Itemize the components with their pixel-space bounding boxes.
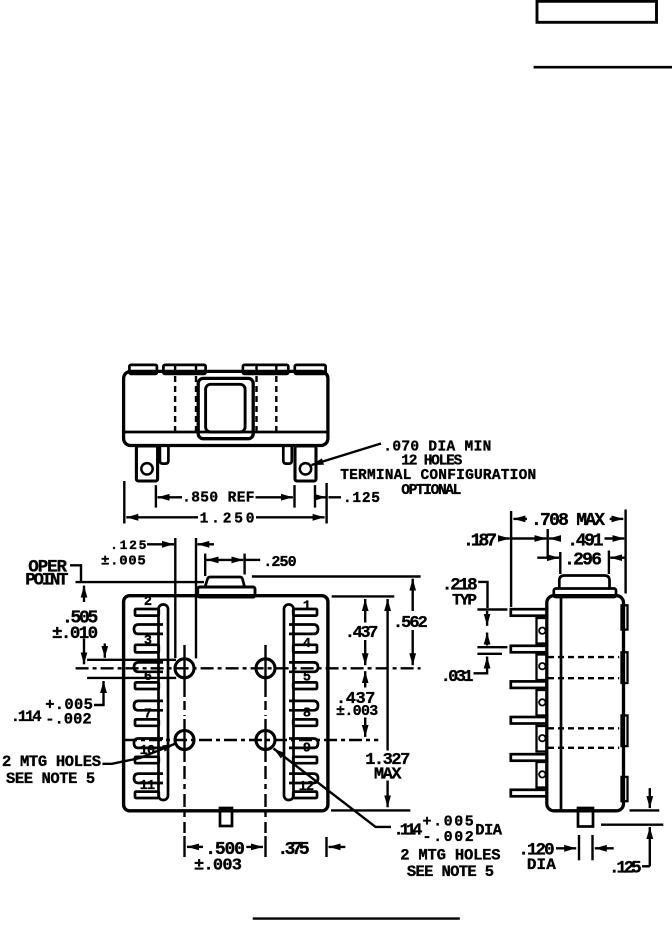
- extension line A: [174, 538, 176, 658]
- relay body (top view): [124, 371, 328, 445]
- svg-text:1: 1: [303, 600, 311, 615]
- side bottom tab: [578, 808, 593, 827]
- side terminal 6: [511, 790, 547, 797]
- svg-text:±.010: ±.010: [52, 624, 98, 644]
- right edge bump 4: [622, 777, 628, 801]
- left small terminal tab: [160, 445, 169, 464]
- extension line B: [195, 538, 197, 658]
- svg-text:.708 MAX: .708 MAX: [531, 511, 605, 531]
- svg-text:DIA: DIA: [475, 822, 502, 840]
- hidden hole line 2: [548, 677, 619, 679]
- svg-text:1.250: 1.250: [200, 512, 255, 528]
- right terminal plate 5: [293, 682, 317, 689]
- top bump 2: [163, 365, 205, 374]
- leader to lower left hole: [102, 744, 174, 764]
- left terminal plate 2: [135, 609, 159, 616]
- right comb spine: [284, 605, 294, 801]
- top bump 1: [129, 365, 157, 374]
- left terminal plate 11: [135, 792, 159, 798]
- dim .562: [412, 579, 414, 611]
- right side reference: cap top extension: [252, 575, 421, 577]
- svg-text:4: 4: [303, 637, 311, 652]
- svg-text:-.002: -.002: [423, 829, 474, 846]
- leader to .070 DIA MIN: [312, 444, 382, 466]
- front bottom tab: [220, 808, 232, 826]
- front cap boss: [205, 577, 245, 587]
- svg-text:2 MTG HOLES: 2 MTG HOLES: [400, 847, 500, 865]
- svg-text:.437: .437: [345, 624, 379, 643]
- bracket between terminals 1: [537, 618, 547, 644]
- svg-text:.296: .296: [564, 551, 602, 571]
- right terminal plate 12: [293, 792, 317, 798]
- svg-text:2 MTG HOLES: 2 MTG HOLES: [2, 753, 101, 771]
- hole centerline vertical right: [264, 645, 266, 697]
- svg-text:SEE NOTE 5: SEE NOTE 5: [6, 770, 95, 788]
- hidden line 1: [174, 366, 176, 432]
- svg-text:TYP: TYP: [452, 592, 477, 610]
- oper point reference line: [76, 581, 205, 583]
- svg-text:2: 2: [144, 595, 152, 610]
- svg-text:.375: .375: [277, 840, 309, 860]
- right contact finger 4: [289, 739, 318, 748]
- mounting hole upper left: [175, 659, 194, 678]
- body inner edge line: [560, 597, 563, 810]
- right edge bump 1: [622, 605, 628, 629]
- left contact finger 5: [134, 774, 163, 783]
- svg-text:OPTIONAL: OPTIONAL: [401, 483, 461, 499]
- relay body (side view): [547, 596, 624, 811]
- svg-text:-.002: -.002: [45, 710, 91, 728]
- OPER POINT bracket: [70, 565, 81, 582]
- left terminal plate 3: [135, 645, 159, 653]
- svg-text:±.003: ±.003: [336, 703, 378, 720]
- hole tangent line bottom: [87, 677, 176, 679]
- svg-text:.114: .114: [394, 822, 423, 841]
- left terminal plate 6: [135, 682, 159, 689]
- right mounting ear: [295, 446, 316, 481]
- svg-text:.125: .125: [110, 538, 146, 553]
- dim .491: [549, 537, 560, 539]
- svg-text:12: 12: [299, 780, 315, 795]
- top bump 3: [243, 365, 288, 374]
- dim .505 +-.010: [83, 586, 85, 602]
- right contact finger 2: [289, 662, 318, 671]
- mounting hole lower left: [175, 731, 194, 750]
- dim .437 +-.003: [364, 671, 366, 687]
- ext line body right bumps: [624, 510, 626, 594]
- right contact finger 5: [289, 774, 318, 783]
- side terminal 4: [511, 717, 547, 724]
- hidden line 4: [275, 366, 277, 432]
- svg-text:3: 3: [144, 634, 152, 649]
- svg-text:.125: .125: [609, 859, 642, 879]
- right contact finger 3: [289, 701, 318, 710]
- svg-text:11: 11: [140, 779, 156, 794]
- svg-text:MAX: MAX: [374, 766, 402, 785]
- hidden hole line 4: [548, 747, 619, 749]
- left terminal plate 7: [135, 719, 159, 725]
- svg-text:9: 9: [303, 742, 311, 757]
- dim .031: [477, 653, 502, 655]
- dim .437 upper: [364, 599, 366, 623]
- left comb spine: [159, 605, 169, 801]
- right edge bump 2: [622, 652, 628, 683]
- center boss inner: [206, 384, 246, 432]
- svg-text:.850 REF: .850 REF: [182, 491, 254, 507]
- svg-text:7: 7: [144, 708, 152, 723]
- hidden line 3: [255, 366, 257, 432]
- left contact finger 4: [134, 739, 163, 748]
- left contact finger 3: [134, 701, 163, 710]
- svg-text:.114: .114: [11, 708, 42, 726]
- top bump 4: [295, 365, 326, 374]
- hole tangent line top: [87, 659, 176, 661]
- dim .125 tab: [630, 809, 660, 811]
- svg-text:.031: .031: [441, 668, 474, 687]
- left contact finger 2: [134, 662, 163, 671]
- side terminal 3: [511, 681, 547, 688]
- bracket between terminals 5: [537, 762, 547, 788]
- dim .296: [537, 557, 559, 559]
- left terminal plate 10: [135, 757, 159, 763]
- svg-text:+.005: +.005: [423, 814, 474, 831]
- leader to lower right hole: [274, 749, 392, 827]
- flange step line: [125, 431, 328, 434]
- bracket hole 3: [539, 699, 545, 705]
- ext line terminal tips: [510, 511, 512, 607]
- footer rule line: [253, 917, 460, 919]
- ext line body left: [547, 529, 549, 559]
- bracket hole 5: [539, 771, 545, 777]
- ext line cap right: [608, 551, 610, 575]
- right terminal plate 1: [293, 609, 317, 616]
- dim .500 +-.003: [187, 846, 203, 848]
- front cap flange: [198, 587, 255, 597]
- dim 1.327 MAX: [386, 599, 388, 751]
- right terminal plate 8: [293, 719, 317, 725]
- right ear hole: [300, 463, 311, 474]
- svg-text:±.003: ±.003: [194, 857, 242, 876]
- left contact finger 1: [134, 625, 163, 634]
- dim .850 REF: [155, 485, 157, 508]
- body bottom extension: [331, 809, 410, 811]
- svg-text:.491: .491: [567, 532, 603, 552]
- relay body (front view): [124, 596, 328, 811]
- bracket hole 4: [539, 735, 545, 741]
- svg-text:SEE NOTE 5: SEE NOTE 5: [407, 863, 494, 881]
- svg-text:5: 5: [303, 671, 311, 686]
- ext line cap left: [559, 552, 561, 574]
- mounting hole upper right: [256, 659, 275, 678]
- svg-text:.562: .562: [393, 614, 428, 633]
- svg-text:POINT: POINT: [25, 571, 68, 591]
- hole centerline horizontal upper: [76, 667, 421, 669]
- hidden hole line 1: [548, 656, 619, 658]
- svg-text:±.005: ±.005: [101, 554, 146, 570]
- bracket between terminals 2: [537, 655, 547, 681]
- side cap flange: [554, 589, 616, 598]
- svg-text:.250: .250: [263, 554, 296, 571]
- side cap boss: [559, 576, 609, 589]
- right terminal plate 4: [293, 645, 317, 653]
- body top extension: [332, 595, 395, 597]
- svg-text:.125: .125: [343, 491, 380, 507]
- side terminal 2: [511, 646, 547, 653]
- side terminal 1: [511, 609, 547, 616]
- right terminal plate 9: [293, 757, 317, 763]
- mounting hole lower right: [256, 731, 275, 750]
- hole centerline horizontal lower: [124, 739, 378, 741]
- bracket hole 2: [539, 663, 545, 669]
- svg-text:TERMINAL CONFIGURATION: TERMINAL CONFIGURATION: [340, 468, 536, 484]
- svg-text:12 HOLES: 12 HOLES: [401, 454, 462, 470]
- right edge bump 3: [622, 715, 628, 746]
- hidden hole line 3: [548, 727, 619, 729]
- svg-text:.187: .187: [463, 532, 497, 552]
- dim .114 hole dia arrows: [104, 644, 106, 658]
- left ear hole: [141, 463, 152, 474]
- bracket between terminals 3: [537, 690, 547, 716]
- dim .125 +-.005: [147, 543, 174, 545]
- header rule line: [534, 66, 672, 69]
- hole centerline vertical left: [183, 645, 185, 697]
- title block box top right: [537, 1, 657, 22]
- side terminal 5: [511, 754, 547, 761]
- hidden line 2: [195, 366, 197, 432]
- center boss outer: [198, 378, 253, 438]
- right contact finger 1: [289, 625, 318, 634]
- dim .250: [204, 554, 206, 576]
- bracket hole 1: [539, 628, 545, 634]
- bracket between terminals 4: [537, 726, 547, 752]
- right small terminal tab: [283, 445, 292, 464]
- left mounting ear: [136, 446, 157, 481]
- dim 1.250: [123, 481, 125, 524]
- svg-text:DIA: DIA: [527, 856, 556, 874]
- svg-text:8: 8: [303, 707, 311, 722]
- dim .125 (ear to edge): [314, 485, 316, 508]
- dim .708 MAX: [513, 518, 527, 520]
